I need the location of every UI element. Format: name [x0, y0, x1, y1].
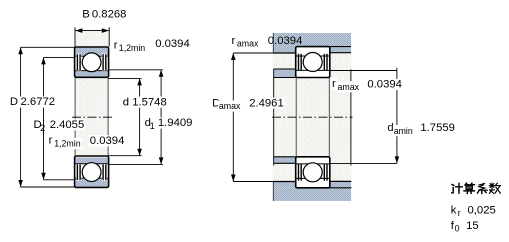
svg-text:0.0394: 0.0394 [268, 35, 303, 47]
extension line da (top) [329, 70, 397, 72]
hatched background left figure [75, 31, 109, 188]
shaft shoulder lower [274, 157, 296, 164]
svg-text:amin: amin [394, 126, 413, 136]
seal right outer lip lower [105, 164, 107, 180]
bore edge line left [74, 77, 76, 156]
housing upper band [273, 33, 351, 47]
bore edge line left right-figure [295, 78, 297, 157]
seal recess left lower [76, 164, 81, 181]
outline lower section right [296, 157, 330, 188]
outline lower section [75, 156, 109, 187]
value r amax right [366, 79, 403, 90]
housing bore line lower [296, 187, 352, 189]
ball upper right [303, 53, 322, 72]
ball upper [82, 53, 101, 72]
hatched background right figure [273, 33, 352, 201]
ball lower right [303, 163, 322, 182]
svg-text:d: d [123, 96, 129, 108]
svg-text:amax: amax [338, 82, 360, 92]
svg-text:0: 0 [455, 224, 460, 234]
arrow d bottom [137, 149, 142, 156]
extension line D (bottom) [21, 186, 76, 188]
svg-text:r: r [458, 208, 461, 218]
seal right outer lip upper [105, 54, 107, 70]
housing lower left face [272, 182, 274, 201]
svg-text:0.0394: 0.0394 [90, 135, 125, 147]
shaft shoulder lower bottom edge [274, 162, 296, 164]
dimension line B [75, 30, 109, 32]
svg-text:r: r [49, 135, 53, 147]
arrow D top [18, 47, 23, 54]
extension tick B right [108, 27, 110, 46]
seal left outer lip lower right [298, 164, 300, 180]
bore edge line right right-figure [328, 78, 330, 157]
housing bore line upper [296, 46, 351, 48]
arrow d1 bottom [159, 157, 164, 164]
outline upper section [75, 47, 109, 77]
housing shoulder upper right [330, 47, 351, 53]
extension line d1 (bottom) [108, 163, 163, 165]
seal left outer lip lower [76, 164, 78, 180]
arrow D2 bottom [41, 173, 46, 180]
svg-text:0.8268: 0.8268 [92, 9, 127, 21]
lower section body right [296, 157, 330, 188]
svg-text:amax: amax [237, 39, 259, 49]
inner ring shoulder line lower right [296, 163, 329, 165]
inner ring shoulder line upper right [296, 69, 329, 71]
arrow d top [137, 78, 142, 85]
shaft shoulder silhouette line [273, 69, 275, 166]
seal left inner lip lower [79, 164, 81, 180]
svg-text:1,2min: 1,2min [119, 43, 146, 53]
dimension line d [139, 78, 141, 155]
lower section body [75, 156, 109, 187]
extension line D2 (top) [44, 56, 76, 58]
label D2 [32, 119, 42, 130]
arrow Damax top [231, 53, 236, 60]
seal right inner lip upper right [323, 54, 325, 70]
arrow Damax bottom [231, 175, 236, 182]
label d [121, 97, 130, 108]
centreline left figure [72, 116, 114, 118]
arrow B right [102, 28, 109, 33]
outer ring upper (steel) [75, 48, 107, 57]
dimension line D2 [43, 57, 45, 179]
value D [19, 96, 56, 107]
seal left outer lip upper [76, 54, 78, 70]
seal left outer lip upper right [298, 54, 300, 70]
label Damax [211, 98, 222, 109]
extension line d (top, bore) [108, 77, 141, 79]
extension line d (bottom) [108, 155, 141, 157]
centreline right figure [272, 116, 353, 118]
outer ring raceway line lower [75, 177, 107, 179]
arrow D bottom [18, 180, 23, 187]
seal left inner lip upper right [300, 54, 302, 70]
dimension line damin [396, 71, 398, 164]
inner ring upper (steel) [75, 71, 107, 77]
arrow D2 top [41, 57, 46, 64]
extension line d1 (top) [108, 69, 163, 71]
seal right inner lip lower right [323, 164, 325, 180]
shaft shoulder upper top edge [274, 68, 296, 70]
svg-text:k: k [451, 205, 457, 217]
seal recess right lower [102, 164, 107, 181]
shaft surface line upper [274, 77, 296, 79]
housing shoulder lower left top edge [273, 181, 295, 183]
heading: calculation factors (CJK, drawn) [452, 183, 501, 193]
svg-text:r: r [232, 35, 236, 47]
shaft surface line lower [274, 156, 296, 158]
outer ring raceway line upper [75, 55, 107, 57]
svg-text:2.6772: 2.6772 [21, 96, 56, 108]
arrow d1 top [159, 70, 164, 77]
label r amax right [330, 78, 337, 89]
extension line da (bottom) [329, 162, 397, 164]
svg-text:r: r [332, 78, 336, 90]
value r1,2min bottom [88, 135, 125, 146]
shaft shoulder upper [274, 69, 296, 78]
housing shoulder upper left bottom edge [273, 52, 295, 54]
seal right inner lip upper [102, 54, 104, 70]
dimension line D [20, 47, 22, 187]
label D [8, 96, 18, 107]
label damin [386, 122, 395, 133]
extension line Da (bottom) [233, 181, 295, 183]
inner ring lower (steel) [75, 157, 107, 163]
value d [131, 97, 168, 108]
svg-text:2: 2 [40, 123, 45, 133]
upper section body right [296, 47, 330, 78]
inner ring shoulder line lower [75, 163, 107, 165]
abutment projection line [350, 69, 352, 165]
inner ring shoulder line upper [75, 70, 107, 72]
outline upper section right [296, 47, 330, 78]
svg-text:2.4961: 2.4961 [249, 97, 284, 109]
svg-text:15: 15 [466, 220, 479, 232]
svg-text:0.0394: 0.0394 [367, 79, 402, 91]
svg-text:1.5748: 1.5748 [132, 96, 167, 108]
svg-text:B: B [82, 9, 90, 21]
seal left inner lip upper [79, 54, 81, 70]
value damin [419, 122, 456, 133]
dimension line Damax [232, 53, 234, 182]
svg-text:2.4055: 2.4055 [50, 119, 85, 131]
arrow B left [75, 28, 82, 33]
arrow damin bottom [395, 156, 400, 163]
dimension line d1 [160, 70, 162, 165]
svg-text:amax: amax [219, 101, 241, 111]
svg-text:r: r [114, 39, 118, 51]
svg-text:D: D [10, 96, 18, 108]
svg-text:1: 1 [150, 121, 155, 131]
seal recess right upper [102, 54, 107, 71]
housing lower band [273, 188, 351, 201]
svg-text:1,2min: 1,2min [54, 139, 81, 149]
seal recess left upper [76, 54, 81, 71]
tick damin top [396, 68, 398, 71]
svg-text:0,025: 0,025 [468, 205, 496, 217]
svg-text:1.7559: 1.7559 [420, 122, 455, 134]
housing shoulder lower right top edge [330, 180, 352, 182]
ball lower [82, 163, 101, 182]
seal right outer lip upper right [326, 54, 328, 70]
label d1 [143, 117, 152, 128]
housing shoulder lower left [273, 182, 295, 188]
housing shoulder lower right [330, 182, 351, 188]
seal right inner lip lower [102, 164, 104, 180]
value d1 [156, 117, 193, 128]
svg-text:0.0394: 0.0394 [155, 38, 190, 50]
value Damax [248, 98, 285, 109]
housing shoulder upper left [273, 47, 295, 53]
label r1,2min bottom [46, 135, 54, 146]
seal left inner lip lower right [300, 164, 302, 180]
outer ring raceway line upper right [296, 55, 329, 57]
extension line Da (top) [233, 52, 295, 54]
upper section body [75, 47, 109, 77]
value D2 [48, 119, 85, 130]
extension line D2 (bottom) [44, 179, 76, 181]
extension tick B left [74, 27, 76, 46]
bore edge line right [107, 77, 109, 156]
outer ring lower (steel) [75, 178, 107, 187]
housing upper left face [272, 33, 274, 53]
svg-text:1.9409: 1.9409 [158, 117, 193, 129]
extension line D (top, outer diameter) [21, 46, 76, 48]
outer ring raceway line lower right [296, 177, 329, 179]
housing shoulder upper right bottom edge [330, 52, 351, 54]
seal right outer lip lower right [326, 164, 328, 180]
